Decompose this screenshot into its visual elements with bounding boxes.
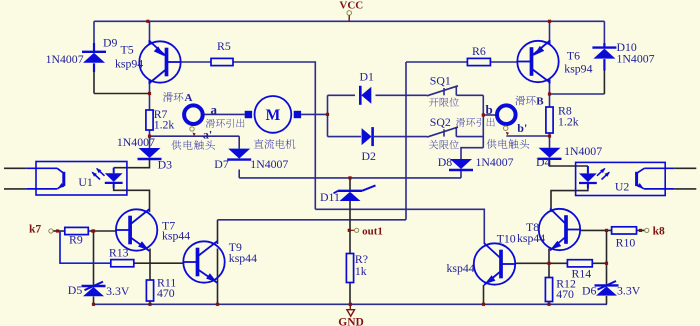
wire R5 to node over motor (233, 62, 315, 209)
svg-text:ksp44: ksp44 (229, 251, 257, 265)
svg-text:3.3V: 3.3V (106, 284, 130, 298)
wire T9 collector row (218, 219, 407, 221)
svg-text:VCC: VCC (339, 0, 363, 12)
wire T5 emitter to rail (149, 21, 151, 42)
wire T8 base to node (581, 229, 612, 231)
svg-text:k7: k7 (29, 223, 41, 235)
svg-text:D8: D8 (438, 155, 453, 169)
svg-text:A: A (185, 92, 193, 104)
svg-text:1.2k: 1.2k (558, 115, 579, 129)
wire T10 base row (515, 262, 550, 264)
wire T6 collector node to D10 (550, 93, 605, 95)
wire ground rail (94, 303, 608, 305)
svg-text:470: 470 (556, 287, 574, 301)
diode D1 (361, 87, 371, 104)
wire T5 base to R5 (182, 61, 212, 63)
diode D8 (450, 159, 472, 169)
wire D9 bottom leg (93, 72, 95, 94)
optocoupler U1 (36, 162, 127, 196)
wire R11 to ground rail (149, 301, 151, 304)
power VCC (347, 11, 352, 16)
wire U2 output emitter (644, 188, 674, 190)
wire D2 right to SQ2 (374, 136, 427, 138)
svg-text:T10: T10 (497, 232, 516, 246)
resistor R12 (545, 278, 552, 302)
wire D1 left (328, 94, 356, 96)
svg-text:D3: D3 (158, 158, 173, 172)
wire node b jog to D8 (461, 148, 483, 159)
svg-text:3.3V: 3.3V (617, 283, 641, 297)
svg-text:1N4007: 1N4007 (46, 52, 84, 66)
resistor R-question output (346, 254, 353, 283)
wire D10 top (603, 21, 605, 43)
wire T8 emitter to node (548, 249, 550, 264)
terminal k7 (49, 229, 53, 233)
wire D11 anode to R? (349, 201, 351, 254)
diode D7 (228, 149, 250, 159)
svg-text:b': b' (517, 121, 527, 135)
wire T9 emitter to ground rail (217, 249, 219, 305)
resistor R10 (612, 227, 637, 234)
svg-text:a: a (211, 102, 218, 117)
transistor T6 (517, 41, 558, 82)
wire T10 emitter to ground rail (483, 285, 485, 304)
svg-text:k8: k8 (653, 226, 665, 238)
resistor R8 (546, 107, 553, 133)
ground GND (349, 304, 351, 309)
svg-text:ksp44: ksp44 (162, 229, 190, 243)
svg-text:U2: U2 (615, 180, 630, 194)
wire R14 left (549, 262, 567, 264)
svg-text:470: 470 (157, 286, 175, 300)
resistor R7 (146, 110, 153, 130)
svg-text:1N4007: 1N4007 (617, 52, 655, 66)
svg-text:R13: R13 (109, 246, 129, 260)
resistor R14 (567, 260, 592, 267)
svg-text:D4: D4 (536, 155, 551, 169)
wire U2 output collector (644, 167, 674, 169)
wire R10 to k8 (637, 229, 645, 231)
wire D5 clamp vertical (93, 231, 95, 286)
svg-text:D7: D7 (214, 157, 229, 171)
svg-text:U1: U1 (78, 175, 93, 189)
motor M (255, 96, 292, 133)
wire D5 to ground rail (93, 297, 95, 305)
svg-text:out1: out1 (362, 225, 383, 237)
label supply contact B (487, 139, 497, 149)
zener diode D5 (82, 285, 106, 287)
svg-text:D9: D9 (103, 36, 118, 50)
wire D8 to free-wheel row (460, 170, 462, 178)
wire mid row to T10 collector (315, 209, 484, 244)
wire T6 collector to R8 (549, 82, 551, 107)
wire k7 branch to R13 (60, 231, 111, 263)
svg-text:R10: R10 (616, 236, 636, 250)
diode D10 (592, 46, 616, 48)
diode D4 (539, 148, 561, 158)
wire SQ1 right to node b (456, 94, 483, 96)
label supply contact A (171, 140, 181, 150)
svg-text:D6: D6 (582, 283, 597, 297)
wire node to R12 (548, 263, 550, 277)
switch SQ2 (427, 127, 458, 137)
wire U2 LED cathode to T8 collector (551, 183, 588, 212)
wire D9 to T5 collector node (94, 93, 150, 95)
wire T5 collector to R7 (149, 82, 151, 110)
wire SQ2 right to node b (456, 136, 483, 138)
label open limit (429, 98, 438, 107)
svg-text:SQ2: SQ2 (430, 115, 451, 129)
svg-text:ksp94: ksp94 (564, 62, 592, 76)
diode D2 (362, 128, 372, 145)
wire D9 top (93, 21, 95, 44)
diode D3 (139, 148, 161, 158)
wire node b to slip ring B (483, 114, 495, 116)
wire clamp node vertical to D6 (606, 230, 608, 285)
slip ring B contact (506, 132, 509, 136)
wire D7 anode stub (238, 136, 240, 148)
transistor T5 (139, 41, 180, 82)
svg-text:D2: D2 (362, 149, 377, 163)
svg-text:1N4007: 1N4007 (250, 157, 288, 171)
svg-text:b: b (486, 102, 493, 117)
svg-text:D5: D5 (68, 283, 83, 297)
slip ring A (184, 105, 203, 124)
wire D10 bottom leg (603, 71, 605, 95)
svg-text:R5: R5 (217, 39, 231, 53)
label close limit (429, 140, 438, 149)
slip ring B lead label (456, 118, 465, 127)
wire D6 to ground rail (606, 296, 608, 304)
svg-text:SQ1: SQ1 (430, 74, 451, 88)
optocoupler U1 light arrows (92, 172, 100, 179)
wire R? to ground rail (349, 283, 351, 305)
svg-text:T5: T5 (121, 43, 134, 57)
slip ring A lead label (206, 119, 215, 128)
wire D1 right to SQ1 (376, 94, 428, 96)
wire D2 left (328, 136, 362, 138)
transistor T8 (539, 209, 580, 250)
wire node b vertical (482, 95, 484, 147)
wire R13 to T9 base (134, 262, 184, 264)
wire motor to bridge node (301, 113, 327, 115)
svg-text:ksp44: ksp44 (447, 261, 475, 275)
wire R6 left from T9 node (406, 61, 467, 63)
wire D3 cathode to U1 LED (114, 159, 150, 168)
svg-text:GND: GND (338, 317, 364, 326)
svg-text:T6: T6 (567, 49, 580, 63)
wire VCC top rail (94, 20, 604, 22)
label DC motor (254, 139, 264, 148)
svg-text:D1: D1 (360, 70, 375, 84)
switch SQ1 (427, 86, 458, 96)
slip ring B (497, 105, 516, 124)
optocoupler U1 LED (105, 173, 123, 182)
junction dots (146, 20, 149, 23)
resistor R5 (211, 58, 233, 65)
zener diode D6 (595, 284, 619, 286)
slip ring A contact (193, 133, 196, 137)
transistor T10 (474, 243, 515, 284)
svg-text:R6: R6 (472, 44, 486, 58)
wire R8 to supply contact b-prime (549, 133, 551, 136)
wire a-prime horizontal (150, 135, 240, 137)
resistor R6 (467, 58, 490, 65)
svg-text:a': a' (203, 128, 212, 142)
transistor T7 (116, 209, 157, 250)
wire U1 input collector (4, 167, 26, 169)
wire R7 to supply contact a-prime (149, 130, 151, 136)
svg-text:1N4007: 1N4007 (564, 144, 602, 158)
svg-text:R9: R9 (69, 233, 83, 247)
svg-text:ksp44: ksp44 (517, 231, 545, 245)
wire R6 vertical to limit switch rows (405, 62, 407, 220)
optocoupler U2 LED (579, 173, 597, 182)
resistor R13 (111, 260, 134, 267)
svg-text:ksp94: ksp94 (115, 56, 143, 70)
svg-text:1k: 1k (355, 264, 367, 278)
wire k7 stub (53, 230, 65, 232)
resistor R11 (146, 280, 153, 301)
wire T7 emitter to R11 (149, 249, 151, 281)
wire D7 to free-wheel row (238, 170, 240, 178)
diode D9 (82, 51, 106, 53)
terminal k8 (645, 228, 649, 232)
resistor R9 (65, 227, 89, 234)
wire T6 emitter to rail (549, 21, 551, 40)
wire T9 collector riser (217, 220, 219, 244)
wire R9 to T7 base (88, 230, 116, 232)
svg-text:M: M (266, 107, 281, 124)
svg-text:1.2k: 1.2k (154, 118, 175, 132)
wire R14 right to clamp node (592, 262, 606, 264)
wire free-wheel row D7-D8 (239, 177, 461, 179)
zener diode D11 (338, 190, 362, 192)
optocoupler U2 (576, 162, 666, 195)
wire D11 net to output (349, 178, 351, 191)
wire D4 cathode to U2 LED (550, 159, 588, 166)
wire U1 input emitter (4, 188, 26, 190)
terminal out1 (350, 229, 354, 231)
wire b-prime horizontal (506, 135, 549, 137)
wire R12 to ground rail (548, 302, 550, 305)
wire D4 anode stub (549, 136, 551, 148)
wire bridge left vertical (327, 95, 329, 136)
wire slip ring A to motor (204, 113, 244, 115)
wire U1 LED cathode to T7 collector (114, 184, 150, 213)
svg-text:B: B (536, 96, 544, 108)
svg-text:1N4007: 1N4007 (476, 155, 514, 169)
transistor T9 (183, 241, 224, 282)
optocoupler U2 light arrows (602, 172, 610, 179)
wire R6 to T6 base (490, 61, 517, 63)
wire D3 anode stub (149, 136, 151, 148)
svg-text:D11: D11 (320, 190, 340, 204)
